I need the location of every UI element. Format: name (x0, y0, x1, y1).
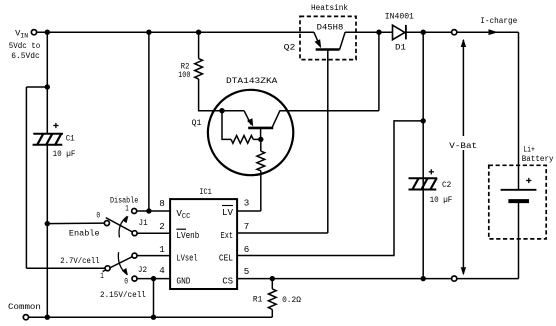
svg-text:IC1: IC1 (199, 187, 211, 197)
svg-text:CEL: CEL (219, 253, 233, 264)
wire R2 top lead (198, 32, 200, 58)
node D1 cathode / C2 (421, 30, 426, 35)
node pin8 / J1 (146, 208, 151, 213)
wire enable tap (47, 222, 104, 225)
wire C2 branch (422, 32, 424, 278)
svg-text:1: 1 (100, 271, 104, 281)
wire Q1 base bar to node (260, 128, 262, 139)
wire C1 branch upper (46, 32, 48, 134)
node CEL / V-Bat (421, 118, 426, 123)
wire CEL pin6 (237, 121, 423, 256)
wire R2 bottom lead (199, 79, 245, 111)
svg-text:5Vdc to: 5Vdc to (9, 41, 41, 51)
switch J2 arc arrowhead (122, 268, 128, 275)
wire bypass horizontal at node (26, 86, 47, 88)
switch J1 pole (132, 231, 137, 236)
wire Q2 collector diagonal (340, 32, 346, 49)
wire pin4 stub (137, 278, 170, 280)
heatsink dashed box (300, 16, 356, 59)
capacitor C1 top plate (33, 133, 63, 135)
svg-text:3: 3 (244, 198, 250, 209)
svg-text:GND: GND (176, 276, 191, 287)
wire C1 branch lower to ground (46, 145, 48, 317)
wire top rail left (37, 31, 314, 33)
transistor Q1 circle (208, 90, 293, 175)
node enable tap (45, 221, 50, 226)
wire bypass vertical (25, 87, 27, 268)
node D1 anode / collectors (376, 30, 381, 35)
node pin4 / J2 (151, 276, 156, 281)
svg-text:1: 1 (125, 203, 129, 213)
svg-text:LVsel: LVsel (176, 253, 197, 264)
transistor Q1 base bar (248, 127, 273, 130)
wire top rail right of D1 (406, 31, 519, 33)
IC1 box (170, 199, 237, 289)
svg-text:0: 0 (124, 276, 128, 286)
label battery plus (526, 178, 531, 183)
svg-text:C1: C1 (66, 134, 75, 144)
pin label LVenb overbar (176, 228, 186, 230)
switch J2 arc (118, 252, 127, 275)
svg-text:J2: J2 (138, 265, 147, 275)
svg-text:Q1: Q1 (192, 118, 202, 128)
svg-text:Common: Common (8, 302, 41, 312)
wire Q1 internal down leg (222, 111, 231, 140)
diode D1 triangle (393, 25, 405, 40)
wire ground rail (29, 316, 273, 318)
terminal CS line (452, 276, 457, 281)
label C1 plus (53, 123, 58, 128)
svg-text:7: 7 (244, 221, 250, 232)
transistor Q2 emitter arrowhead (315, 39, 322, 48)
battery dashed box (489, 165, 546, 239)
switch J1 contact 1 (132, 209, 137, 214)
svg-text:1: 1 (159, 244, 165, 255)
switch contacts (104, 209, 137, 282)
capacitor C2 bottom plate (409, 189, 437, 191)
node VIN rail / C1 (45, 30, 50, 35)
svg-text:IN4001: IN4001 (385, 11, 414, 21)
switch J2 contact 1 (105, 266, 110, 271)
capacitor C2 top plate (409, 177, 438, 179)
svg-text:V-Bat: V-Bat (449, 141, 477, 151)
resistor Q1 internal base resistor (231, 136, 253, 144)
node ground J2 (151, 315, 156, 320)
svg-text:C2: C2 (442, 180, 451, 190)
svg-text:J1: J1 (139, 218, 148, 228)
node C2 bottom (421, 276, 426, 281)
svg-text:10 µF: 10 µF (430, 195, 453, 205)
wire battery negative drop (518, 201, 520, 279)
switch J2 pole (132, 253, 137, 258)
wire pin8 stub (137, 210, 170, 212)
svg-text:4: 4 (159, 265, 165, 276)
svg-text:2: 2 (159, 221, 165, 232)
terminal I-charge (452, 30, 457, 35)
switch J1 contact 0 (104, 221, 109, 226)
svg-text:Q2: Q2 (284, 43, 296, 53)
svg-text:5: 5 (244, 266, 250, 277)
capacitor C1 bottom plate (33, 144, 63, 146)
capacitor C2 hatch diagonals (412, 178, 437, 190)
wire pin3 stub (237, 210, 261, 212)
V-Bat arrowhead up (461, 39, 466, 47)
svg-text:LV: LV (222, 207, 234, 218)
V-Bat arrow line lower (462, 150, 464, 274)
battery cell bottom plate (508, 199, 529, 203)
svg-text:Ext: Ext (221, 230, 233, 241)
label V-Bat (449, 137, 480, 150)
wire Q2 emitter diagonal (314, 32, 319, 44)
wire pin2 stub (137, 232, 170, 234)
wire Q2 base down to Ext (327, 50, 329, 234)
svg-text:LVenb: LVenb (176, 230, 199, 241)
wire top rail right of Q2 (345, 31, 392, 33)
V-Bat arrow line upper (462, 40, 464, 136)
wire Q1 emitter diagonal (244, 111, 251, 125)
svg-text:D45H8: D45H8 (317, 22, 344, 32)
svg-text:R1: R1 (253, 295, 262, 305)
svg-text:Li+: Li+ (523, 144, 535, 154)
wire battery positive drop (518, 32, 520, 190)
label C2 plus (429, 169, 434, 174)
wire Q1 lower resistor top lead (260, 139, 262, 151)
wire CS line pin5 (237, 278, 518, 280)
wire J1 arm (106, 218, 135, 234)
node VCC riser (146, 30, 151, 35)
svg-text:2.15V/cell: 2.15V/cell (100, 290, 146, 300)
transistor Q2 base bar (316, 48, 340, 51)
svg-text:6.5Vdc: 6.5Vdc (11, 51, 40, 61)
wire pin1 stub (137, 255, 170, 257)
diode D1 cathode bar (405, 25, 407, 40)
svg-text:6: 6 (244, 244, 250, 255)
node ground C1 (45, 315, 50, 320)
svg-text:2.7V/cell: 2.7V/cell (60, 256, 99, 266)
wire Q1 base node link (253, 138, 260, 140)
I-charge arrow (489, 29, 499, 35)
resistor R1 zigzag (268, 289, 276, 310)
wire Ext pin7 (237, 232, 328, 234)
switch J1 arc arrowhead (122, 216, 128, 223)
transistor Q1 emitter arrowhead (247, 118, 253, 126)
wire Q1 collector riser (378, 32, 380, 111)
svg-text:Enable: Enable (69, 229, 100, 239)
node Q1 base (258, 137, 263, 142)
svg-text:0.2Ω: 0.2Ω (282, 295, 301, 305)
svg-text:100: 100 (178, 70, 190, 80)
wire VCC riser (148, 32, 150, 211)
node R1 top (270, 276, 275, 281)
node Q1 input (219, 108, 224, 113)
open terminals (23, 30, 457, 320)
node C1 top bypass (45, 84, 50, 89)
switch J1 arc (119, 216, 127, 237)
V-Bat arrowhead down (461, 267, 466, 275)
svg-text:Heatsink: Heatsink (311, 3, 348, 13)
capacitor C1 hatch diagonals (37, 133, 62, 145)
terminal VIN (31, 30, 36, 35)
svg-text:Battery: Battery (522, 154, 554, 164)
wire R1 top lead (271, 279, 273, 289)
wire R1 bottom lead (271, 310, 273, 318)
switch J2 contact 0 (132, 276, 137, 281)
svg-text:I-charge: I-charge (480, 16, 517, 26)
wire J2 arm (103, 256, 135, 272)
svg-text:Disable: Disable (110, 195, 138, 205)
wire Q1 collector horizontal (279, 110, 379, 112)
node R2 riser (196, 30, 201, 35)
wire LV riser to Q1 (260, 171, 262, 211)
svg-text:DTA143ZKA: DTA143ZKA (226, 76, 278, 86)
svg-text:10 µF: 10 µF (53, 149, 76, 159)
svg-text:D1: D1 (395, 43, 406, 53)
battery cell top plate (501, 189, 537, 191)
svg-text:8: 8 (159, 198, 165, 209)
pin label LV overbar (222, 205, 233, 207)
terminal Common (23, 315, 28, 320)
wire GND drop (153, 279, 155, 318)
resistor Q1 internal emitter-base resistor (257, 151, 265, 171)
resistor R2 zigzag (195, 59, 203, 79)
svg-text:0: 0 (96, 211, 100, 221)
svg-text:CS: CS (222, 276, 233, 287)
wire Q1 collector diagonal (272, 111, 280, 128)
wire 2.7V/cell feed (26, 267, 105, 269)
